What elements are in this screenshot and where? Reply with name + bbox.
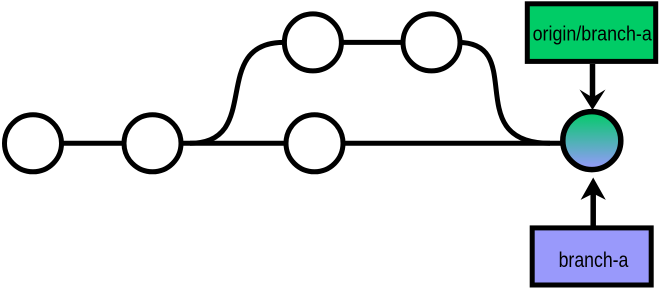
commit node C <box>286 115 343 172</box>
commit node B <box>124 115 181 172</box>
svg-text:branch-a: branch-a <box>559 248 629 272</box>
commit node D (feature branch) <box>284 14 341 71</box>
wire feature branch horizontal line D to E <box>313 40 432 45</box>
arrow from origin/branch-a down to commit F <box>580 64 606 110</box>
arrow from branch-a up to commit F <box>581 178 606 228</box>
commit node F (merge commit, gradient fill) <box>563 112 621 170</box>
wire merge curve from commit E down to commit F <box>458 42 550 143</box>
label box origin/branch-a <box>527 4 655 62</box>
wire main branch horizontal line <box>33 141 592 146</box>
commit node E (feature branch) <box>403 14 460 71</box>
commit node A <box>5 115 62 172</box>
svg-text:origin/branch-a: origin/branch-a <box>533 23 653 45</box>
label box branch-a <box>532 228 651 285</box>
wire branch-out curve from commit B up to commit D <box>190 42 284 143</box>
